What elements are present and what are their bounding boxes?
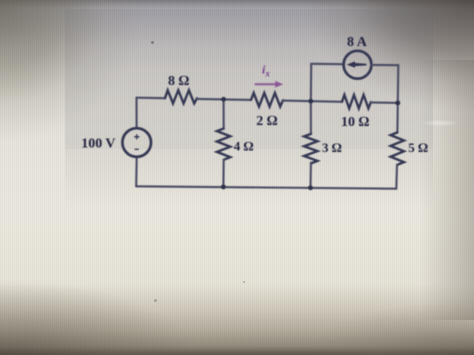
wire: right branch bottom lead — [395, 165, 398, 189]
svg-text:5 Ω: 5 Ω — [408, 140, 428, 155]
wire: left vertical top segment — [135, 98, 137, 129]
wire: 4ohm branch bottom lead — [222, 160, 224, 187]
resistor R 3ohm vertical — [304, 134, 317, 163]
voltage source V1 100V circle — [122, 128, 151, 157]
svg-text:100 V: 100 V — [81, 137, 115, 152]
wire: 2ohm to 10ohm — [283, 101, 342, 102]
voltage source V1 minus sign — [135, 148, 139, 150]
wire: top branch right vertical — [397, 65, 400, 103]
resistor R 5ohm vertical — [391, 132, 404, 164]
resistor R 8ohm — [165, 90, 197, 103]
resistor R 2ohm — [251, 93, 283, 107]
wire: 8ohm to 2ohm — [197, 99, 251, 100]
svg-text:8 A: 8 A — [347, 35, 368, 50]
node C dot (right top) — [395, 100, 400, 105]
wire: 3ohm branch top lead — [310, 101, 312, 134]
current source I1 8A circle — [344, 51, 372, 79]
svg-text:ix: ix — [262, 63, 270, 79]
svg-text:4 Ω: 4 Ω — [234, 139, 254, 154]
resistor R 10ohm — [342, 95, 371, 109]
node A dot (4ohm top) — [221, 97, 226, 102]
wire: right branch top lead — [396, 103, 398, 132]
wire: top branch right horizontal — [371, 64, 398, 66]
node E dot (bottom, 3ohm) — [308, 185, 313, 190]
current source I1 arrow — [347, 61, 367, 67]
dust specks — [151, 41, 154, 44]
current arrow ix (purple) — [255, 81, 284, 88]
voltage source V1 plus sign — [134, 134, 139, 149]
wire: top branch left vertical — [310, 64, 313, 101]
labels — [81, 35, 428, 155]
photo vignette overlays — [0, 0, 474, 9]
wire: top branch left horizontal — [311, 63, 343, 65]
wire: main horizontal, left lead of 8ohm — [137, 97, 166, 100]
svg-text:10 Ω: 10 Ω — [341, 115, 370, 130]
grayer screenshot window region with dot texture — [65, 9, 433, 149]
node D dot (bottom, 4ohm) — [221, 184, 226, 189]
wire: left vertical bottom segment — [135, 157, 138, 187]
resistor R 4ohm vertical — [217, 129, 230, 160]
wire: 3ohm branch bottom lead — [309, 163, 311, 188]
svg-text:3 Ω: 3 Ω — [322, 140, 342, 155]
node B dot (3ohm top) — [308, 99, 313, 104]
svg-text:2 Ω: 2 Ω — [256, 114, 278, 129]
wire: bottom horizontal — [136, 186, 396, 188]
wire: 4ohm branch top lead — [223, 99, 225, 128]
glare streak — [420, 119, 460, 127]
wire: 10ohm to right node — [371, 101, 398, 104]
svg-text:8 Ω: 8 Ω — [168, 74, 190, 89]
